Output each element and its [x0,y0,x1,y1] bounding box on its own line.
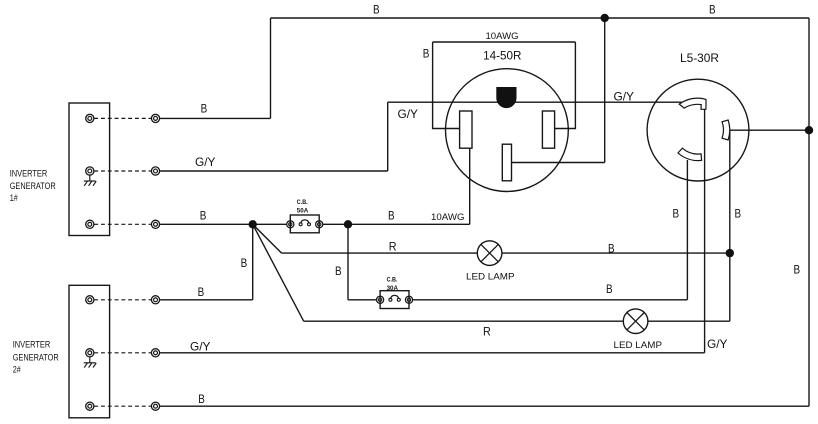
svg-text:10AWG: 10AWG [486,31,519,41]
ground symbol G1 [84,175,96,186]
svg-text:LED LAMP: LED LAMP [466,272,515,282]
svg-text:INVERTER: INVERTER [10,169,48,179]
svg-text:1#: 1# [10,193,18,203]
svg-text:B: B [200,210,207,223]
terminal G1 GND (block) [86,167,94,175]
L5-30R G slot (arc with hook) [679,98,706,109]
svg-text:B: B [198,286,205,299]
wire diagonal to lamp1 R [253,224,282,253]
wire hot riser to L5-30R L slot [686,160,688,300]
wire R lamp2 row [304,320,624,322]
label generator 2 [13,340,59,375]
wire diagonal to lamp2 R [253,224,304,321]
wire bottom bus to G2 L2 [159,405,809,407]
svg-text:G/Y: G/Y [190,340,211,353]
wire G/Y riser [387,102,389,171]
svg-text:B: B [201,103,208,116]
wire right bus down [808,18,810,406]
terminal J2-3 (external) [151,402,159,410]
svg-text:10AWG: 10AWG [431,212,465,222]
svg-text:C.B.: C.B. [387,277,398,284]
svg-text:L5-30R: L5-30R [680,52,719,65]
svg-text:GENERATOR: GENERATOR [10,181,56,191]
wire G1 GND out [159,170,387,172]
svg-text:B: B [335,265,342,278]
dashed link G2 L1 [94,299,151,301]
receptacle 14-50R circle [446,69,569,192]
svg-text:2#: 2# [13,364,21,374]
junction dot B [344,220,352,228]
wire L5-30R W slot to right bus [729,129,809,131]
wire L5-30R W slot drop [729,130,731,321]
svg-text:B: B [241,257,248,270]
terminal G1 L2 (block) [86,220,94,228]
terminal G2 L2 (block) [86,402,94,410]
junction dot E [805,126,813,134]
terminal J1-2 (external) [151,167,159,175]
dashed link G1 GND [94,170,151,172]
svg-text:GENERATOR: GENERATOR [13,353,59,363]
svg-text:G/Y: G/Y [398,108,419,121]
junction dot D [726,249,734,257]
generator block G2 [69,285,110,418]
breaker CB2 30A [377,291,413,309]
svg-text:B: B [423,48,430,61]
dashed link G2 GND [94,352,151,354]
L5-30R W slot (arc) [722,120,730,140]
wire hot loop 14-50R top [433,41,576,43]
svg-text:B: B [709,4,716,17]
lamp DS1 [477,241,502,266]
svg-text:LED LAMP: LED LAMP [614,340,663,350]
terminal G1 L1 (block) [86,114,94,122]
svg-text:INVERTER: INVERTER [13,340,51,350]
14-50R X slot [460,111,472,148]
junction dot C [601,14,609,22]
wire G1 L2 to junction [159,223,286,225]
wire riser left [270,18,272,118]
junction dot A [249,220,257,228]
receptacle L5-30R circle [647,79,749,181]
dashed link G1 L1 [94,117,151,119]
wire top bus B [271,17,810,19]
svg-text:R: R [483,326,491,339]
wire G1 L1 to riser [159,117,270,119]
L5-30R L slot (arc) [678,148,702,160]
svg-text:G/Y: G/Y [195,156,216,169]
wire CB2 feed riser [347,224,349,299]
svg-text:B: B [608,242,615,255]
terminal J2-2 (external) [151,349,159,357]
ground symbol G2 [84,357,96,368]
label generator 1 [10,169,56,204]
dashed link G1 L2 [94,223,151,225]
wire into CB2 [348,299,376,301]
svg-text:B: B [373,4,380,17]
svg-text:B: B [198,393,205,406]
lamp DS2 [623,309,648,334]
svg-text:30A: 30A [387,285,399,292]
14-50R ground pin (filled) [496,87,516,108]
svg-text:14-50R: 14-50R [483,49,521,62]
dashed link G2 L2 [94,405,151,407]
wire neutral into 14-50R W slot [512,162,605,164]
svg-text:R: R [389,240,397,253]
wire G2 GND row [159,352,704,354]
wire G/Y across to L5-30R [388,101,682,103]
wire hot loop right side [555,42,576,129]
wire lamp2 B side [648,320,730,322]
svg-text:B: B [388,209,395,222]
wire R lamp1 row [282,252,478,254]
14-50R W slot [502,144,511,181]
svg-text:C.B.: C.B. [297,199,308,206]
svg-text:B: B [606,283,613,296]
wire hot riser to 14-50R X slot [469,148,471,224]
svg-text:B: B [794,264,801,277]
svg-text:B: B [673,208,680,221]
terminal J2-1 (external) [151,296,159,304]
breaker CB1 50A [287,215,323,233]
wire CB1 to junction 2 [323,223,470,225]
generator block G1 [69,103,110,236]
svg-text:G/Y: G/Y [707,338,728,351]
14-50R Y slot [542,111,554,148]
wire G/Y riser to L5-30R G slot [704,109,706,353]
wire G2 L1 row [159,299,252,301]
terminal J1-3 (external) [151,220,159,228]
terminal J1-1 (external) [151,114,159,122]
wire junction to G2 L1 riser [252,224,254,299]
wire CB2 to L5-30R hot [413,299,688,301]
wire lamp1 B side [502,252,730,254]
svg-text:B: B [735,208,742,221]
terminal G2 L1 (block) [86,296,94,304]
wire neutral drop to 14-50R [604,18,606,163]
svg-text:50A: 50A [297,208,309,215]
terminal G2 GND (block) [86,349,94,357]
svg-text:G/Y: G/Y [614,90,635,103]
wire hot loop left side [433,42,460,129]
